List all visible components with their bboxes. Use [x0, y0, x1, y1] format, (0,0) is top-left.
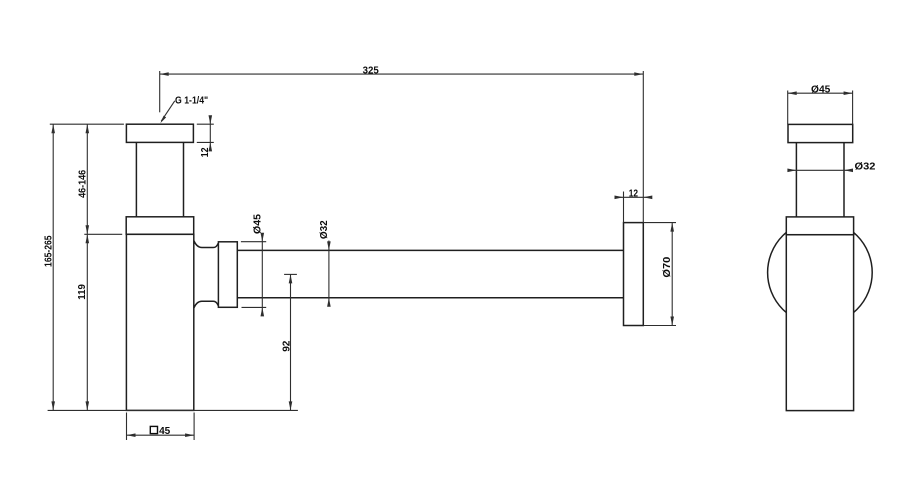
svg-text:12: 12 [629, 189, 639, 200]
svg-text:46-146: 46-146 [77, 170, 88, 198]
svg-text:G 1-1/4": G 1-1/4" [175, 95, 208, 106]
svg-text:Ø45: Ø45 [811, 84, 831, 95]
svg-text:92: 92 [281, 340, 292, 351]
svg-text:165-265: 165-265 [43, 235, 54, 267]
svg-text:12: 12 [200, 147, 211, 157]
svg-text:Ø70: Ø70 [662, 256, 673, 277]
svg-text:Ø32: Ø32 [855, 162, 876, 173]
svg-text:45: 45 [159, 426, 170, 437]
svg-text:Ø45: Ø45 [252, 214, 263, 234]
svg-text:325: 325 [363, 66, 379, 77]
svg-text:Ø32: Ø32 [319, 220, 330, 239]
svg-text:119: 119 [77, 284, 88, 300]
